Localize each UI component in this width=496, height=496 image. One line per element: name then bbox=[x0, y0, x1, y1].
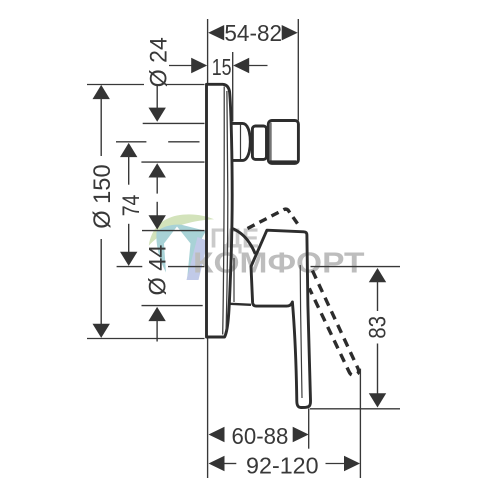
sleeve bottom line bbox=[230, 304, 251, 305]
escutcheon inner line 1 bbox=[223, 87, 225, 335]
connector end cap bottom edge bbox=[270, 160, 297, 163]
svg-text:Ø 24: Ø 24 bbox=[145, 37, 172, 87]
dimension 15 bbox=[169, 54, 268, 80]
svg-text:60-88: 60-88 bbox=[232, 423, 289, 449]
dimension 54-82 bbox=[208, 20, 298, 46]
connector end cap bbox=[268, 121, 298, 164]
extension line escutcheon bottom y338.5 bbox=[87, 338, 205, 340]
dimension 60-88 bbox=[209, 423, 309, 449]
escutcheon inner line 2 bbox=[226, 91, 228, 331]
extension line handle centre y266.6 left bbox=[117, 266, 205, 268]
dimension 83 bbox=[365, 268, 392, 408]
dimension D150 bbox=[89, 85, 116, 338]
extension line 60-88 right bbox=[308, 409, 310, 449]
wall extension line left top bbox=[207, 19, 209, 85]
handle blade inner line bbox=[300, 265, 302, 398]
connector neck bbox=[231, 123, 250, 160]
connector end cap inner line bbox=[270, 123, 272, 162]
cartridge dome arc bbox=[232, 228, 256, 254]
extension line 54-82 right bbox=[297, 19, 299, 121]
dimension 92-120 bbox=[209, 453, 361, 479]
extension line 92-120 right bbox=[359, 369, 361, 478]
svg-text:Ø 150: Ø 150 bbox=[89, 164, 116, 228]
extension line sleeve bottom y305.6 bbox=[142, 305, 203, 307]
dimension D24 bbox=[145, 37, 172, 122]
sleeve inner thin line bbox=[233, 258, 235, 302]
extension line 15 right front face bbox=[232, 52, 234, 122]
svg-text:КОМФОРТ: КОМФОРТ bbox=[193, 247, 365, 279]
extension line connector top y123.4 bbox=[143, 122, 205, 124]
svg-text:Ø 44: Ø 44 bbox=[144, 245, 171, 296]
extension line 83 bottom y408.8 bbox=[310, 408, 400, 410]
extension line connector centre y141.8 bbox=[116, 141, 200, 143]
dimension 74 bbox=[118, 143, 145, 266]
handle lever solid bbox=[251, 230, 311, 407]
dimension D44 bbox=[144, 245, 171, 342]
dashed lever pulled position bbox=[309, 271, 358, 376]
watermark logo bbox=[149, 214, 214, 280]
dashed lever raised position bbox=[248, 209, 300, 228]
dimension D24 outside arrow pair below bbox=[149, 163, 166, 229]
svg-text:92-120: 92-120 bbox=[246, 453, 319, 479]
extension line handle top y230.6 bbox=[142, 230, 205, 232]
connector middle ring bbox=[252, 126, 266, 159]
extension line escutcheon top y84.5 bbox=[87, 84, 205, 86]
extension line connector bottom y162.1 bbox=[141, 161, 204, 163]
extension line 83 top y266.6 right bbox=[311, 266, 401, 268]
escutcheon plate outline bbox=[207, 84, 233, 337]
svg-text:74: 74 bbox=[118, 195, 145, 217]
connector neck inner line bbox=[240, 125, 242, 160]
svg-text:83: 83 bbox=[365, 316, 392, 339]
svg-text:15: 15 bbox=[212, 54, 232, 80]
wall extension line left bottom bbox=[207, 338, 209, 478]
svg-text:54-82: 54-82 bbox=[224, 20, 282, 46]
